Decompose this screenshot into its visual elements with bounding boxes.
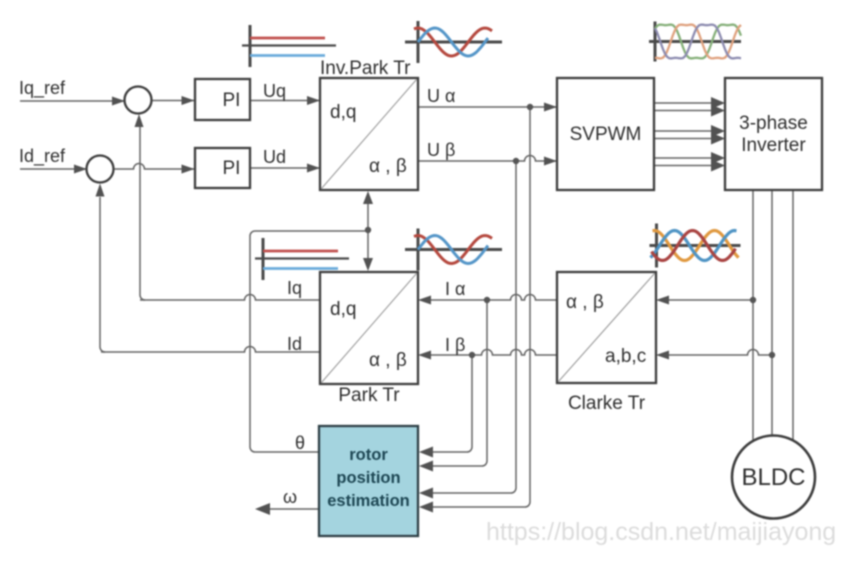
svg-text:θ: θ bbox=[295, 433, 305, 453]
svg-text:a,b,c: a,b,c bbox=[605, 346, 646, 367]
svg-text:Iq: Iq bbox=[287, 278, 302, 298]
svg-text:d,q: d,q bbox=[330, 299, 356, 320]
svg-text:Park Tr: Park Tr bbox=[338, 385, 400, 406]
svg-text:position: position bbox=[336, 469, 400, 487]
svg-text:3-phase: 3-phase bbox=[739, 113, 808, 134]
svg-text:Ud: Ud bbox=[263, 147, 286, 167]
svg-text:Id: Id bbox=[287, 334, 302, 354]
svg-text:Inverter: Inverter bbox=[741, 135, 806, 156]
svg-text:I α: I α bbox=[445, 279, 465, 299]
svg-text:d,q: d,q bbox=[330, 102, 356, 123]
svg-text:α , β: α , β bbox=[566, 292, 604, 313]
svg-text:https://blog.csdn.net/maijiayo: https://blog.csdn.net/maijiayong bbox=[486, 518, 836, 546]
svg-text:SVPWM: SVPWM bbox=[570, 124, 642, 145]
svg-text:PI: PI bbox=[223, 158, 241, 179]
svg-text:U α: U α bbox=[427, 86, 455, 106]
svg-text:Uq: Uq bbox=[263, 81, 286, 101]
svg-text:Inv.Park Tr: Inv.Park Tr bbox=[320, 58, 411, 79]
svg-text:α , β: α , β bbox=[369, 156, 407, 177]
svg-text:estimation: estimation bbox=[327, 492, 410, 510]
svg-text:PI: PI bbox=[223, 90, 241, 111]
svg-text:U β: U β bbox=[427, 140, 455, 160]
svg-text:Id_ref: Id_ref bbox=[19, 146, 66, 167]
svg-text:BLDC: BLDC bbox=[741, 464, 805, 491]
svg-text:ω: ω bbox=[283, 487, 297, 507]
svg-text:α , β: α , β bbox=[369, 350, 407, 371]
svg-text:rotor: rotor bbox=[349, 446, 388, 464]
svg-text:I β: I β bbox=[445, 335, 465, 355]
svg-text:Clarke Tr: Clarke Tr bbox=[568, 393, 646, 414]
svg-text:Iq_ref: Iq_ref bbox=[19, 78, 66, 99]
